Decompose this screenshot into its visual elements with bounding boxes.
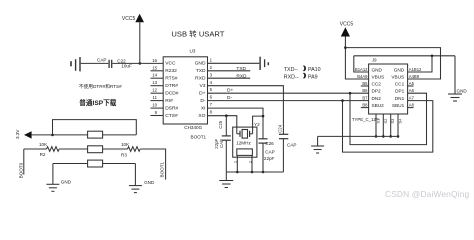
- svg-text:C24: C24: [278, 124, 283, 132]
- svg-text:S4: S4: [398, 118, 403, 124]
- svg-text:13: 13: [152, 80, 157, 85]
- svg-text:BOOT1: BOOT1: [160, 161, 165, 177]
- wire pin14 stub: [151, 77, 164, 79]
- svg-text:S1: S1: [376, 119, 381, 124]
- svg-text:C26: C26: [265, 141, 274, 146]
- wire A1B12 GND right: [408, 56, 432, 72]
- resistor R3: [128, 147, 141, 152]
- svg-text:9: 9: [155, 110, 158, 115]
- svg-text:A8: A8: [409, 103, 415, 108]
- svg-text:S2: S2: [383, 119, 388, 124]
- wire pin10 stub: [151, 107, 164, 109]
- svg-text:DP1: DP1: [395, 89, 405, 94]
- wire pin6 D- to connector B7: [208, 100, 369, 102]
- resistor (box) row A: [88, 131, 103, 138]
- svg-text:C25: C25: [218, 120, 223, 128]
- wire DP wrap (D+ to A6/DP1): [350, 93, 427, 144]
- svg-text:CH340G: CH340G: [184, 125, 202, 130]
- svg-text:14: 14: [152, 73, 157, 78]
- svg-text:22pF: 22pF: [264, 156, 275, 161]
- wire shell gnd line: [318, 135, 398, 137]
- capacitor C21 (electrolytic, left edge): [71, 57, 80, 71]
- svg-text:XO: XO: [198, 113, 205, 119]
- svg-text:U3: U3: [190, 48, 196, 53]
- svg-text:CC1: CC1: [395, 81, 405, 86]
- wire A5 stub: [408, 85, 414, 87]
- wire row B left: [24, 148, 47, 150]
- wire C22 to U3 pin16: [112, 62, 163, 64]
- capacitor C24: [279, 134, 288, 138]
- wire B1A12 GND left: [354, 56, 369, 72]
- wire shell pin S1: [375, 114, 377, 136]
- wire C25 to gnd bus: [225, 140, 227, 172]
- svg-text:10K: 10K: [39, 142, 48, 147]
- wire Y2 pin2 jog to XI: [253, 116, 263, 134]
- svg-text:DSR#: DSR#: [165, 105, 178, 111]
- wire XO down to C25: [225, 116, 227, 136]
- wire gnd bus (crystal area): [226, 171, 283, 173]
- svg-text:8: 8: [210, 110, 213, 115]
- wire B8 stub: [361, 107, 369, 109]
- node shell S2: [382, 135, 385, 138]
- resistor (box) row C: [88, 160, 103, 167]
- capacitor C22: [109, 60, 112, 68]
- node shell S1: [375, 135, 378, 138]
- svg-text:GND: GND: [394, 67, 405, 72]
- power VCC5 left: [135, 14, 144, 22]
- svg-text:B7: B7: [362, 96, 368, 101]
- node Y2 pin1 on bus: [236, 171, 239, 174]
- svg-text:V3: V3: [200, 83, 206, 89]
- svg-text:A7: A7: [409, 96, 415, 101]
- wire A8 stub: [408, 107, 414, 109]
- svg-text:VBUS: VBUS: [372, 74, 385, 79]
- wire pin8 XO: [208, 116, 237, 134]
- svg-text:VCC: VCC: [165, 61, 176, 67]
- svg-text:R232: R232: [165, 68, 177, 74]
- crystal Y2 glyph: [237, 130, 253, 139]
- node D+/B6 junction: [349, 92, 352, 95]
- wire pin2 TXD: [208, 70, 251, 72]
- wire pin15 stub: [151, 70, 164, 72]
- svg-text:VCC5: VCC5: [340, 21, 354, 27]
- wire DN wrap (D- to A7/DN1): [343, 101, 433, 153]
- svg-text:D+: D+: [227, 88, 233, 94]
- ground symbol crystal area: [219, 172, 233, 188]
- wire pin3 RXD: [208, 77, 251, 79]
- svg-text:16: 16: [152, 58, 157, 63]
- op-amp U3 chip body CH340G: [163, 57, 207, 124]
- wire C21 to C22: [81, 62, 109, 64]
- svg-text:RXD--: RXD--: [284, 75, 299, 81]
- svg-text:A1B12: A1B12: [409, 67, 422, 72]
- svg-text:2: 2: [249, 161, 253, 163]
- svg-text:A6: A6: [409, 88, 415, 93]
- svg-text:GND: GND: [372, 67, 383, 72]
- svg-text:5: 5: [210, 87, 213, 92]
- wire pin7 XI: [208, 108, 264, 116]
- svg-text:R3: R3: [121, 153, 127, 158]
- wire pin12 stub: [151, 92, 164, 94]
- svg-text:DN1: DN1: [395, 96, 405, 101]
- svg-text:10: 10: [152, 103, 157, 108]
- svg-text:GND: GND: [195, 61, 206, 67]
- wire row C right: [103, 163, 136, 165]
- svg-text:SBU2: SBU2: [372, 103, 385, 108]
- connector J9 body: [369, 64, 408, 114]
- wire C24 to gnd bus: [282, 139, 284, 172]
- capacitor C25: [222, 136, 231, 140]
- node XI/Y2 jog junction: [262, 115, 265, 118]
- wire VBUS top line: [345, 48, 440, 79]
- svg-text:BOOT0: BOOT0: [18, 162, 23, 178]
- svg-text:11: 11: [153, 95, 158, 100]
- svg-text:不使用DTR#和RTS#: 不使用DTR#和RTS#: [79, 83, 122, 90]
- power VCC5 right: [341, 27, 350, 36]
- svg-text:BOOT1: BOOT1: [191, 134, 207, 139]
- svg-text:B4A9: B4A9: [357, 74, 368, 79]
- node VCC5 right junction: [344, 46, 347, 49]
- wire C26 to gnd bus: [262, 143, 264, 172]
- svg-text:PA9: PA9: [308, 75, 318, 81]
- wire VCC5 right stem down to B4A9: [345, 37, 368, 80]
- svg-text:RXD: RXD: [236, 73, 247, 79]
- node row A loop junction: [51, 134, 54, 137]
- svg-text:XI: XI: [201, 105, 206, 111]
- svg-text:J9: J9: [372, 58, 377, 63]
- wire VCC5 left stem: [139, 22, 141, 63]
- svg-text:S3: S3: [390, 119, 395, 124]
- svg-text:TXD: TXD: [236, 66, 246, 72]
- wire pin9 stub: [151, 115, 164, 117]
- svg-text:3.3V: 3.3V: [15, 129, 20, 139]
- svg-text:R2: R2: [40, 152, 46, 157]
- wire loop over row A: [53, 120, 137, 135]
- svg-text:10K: 10K: [121, 142, 130, 147]
- svg-text:TXD--: TXD--: [284, 67, 298, 73]
- resistor R2: [47, 147, 60, 152]
- svg-text:DTR#: DTR#: [165, 83, 178, 89]
- wire row A right: [103, 134, 137, 136]
- node C26 on bus: [262, 171, 265, 174]
- svg-text:CAP: CAP: [287, 143, 296, 148]
- svg-text:USB 转 USART: USB 转 USART: [171, 29, 224, 39]
- wire pin13 stub: [151, 85, 164, 87]
- svg-text:7: 7: [210, 102, 213, 107]
- wire B5 stub: [361, 85, 369, 87]
- wire 3.3V row A: [32, 134, 88, 136]
- svg-text:CAP: CAP: [265, 149, 274, 154]
- svg-text:12MHz: 12MHz: [236, 141, 251, 146]
- wire box to R3: [103, 148, 128, 150]
- svg-text:VBUS: VBUS: [391, 74, 404, 79]
- svg-text:B6: B6: [362, 88, 368, 93]
- wire row C: [53, 163, 88, 165]
- svg-text:CTS#: CTS#: [165, 113, 178, 119]
- node VCC5/pin16 junction: [139, 62, 142, 65]
- svg-text:普通ISP下载: 普通ISP下载: [79, 98, 116, 107]
- svg-text:GND: GND: [457, 89, 468, 94]
- wire shell pin S4: [397, 114, 399, 136]
- wire Y2 pin2 to gnd bus: [251, 155, 253, 172]
- node Y2 pin2 on bus: [251, 171, 254, 174]
- node XO/C25 junction: [225, 114, 228, 117]
- wire shell pin S2: [382, 114, 384, 136]
- svg-text:15: 15: [152, 65, 157, 70]
- node D-/B7 junction: [341, 99, 344, 102]
- node shell S3: [389, 135, 392, 138]
- svg-text:SBU1: SBU1: [392, 103, 405, 108]
- svg-text:GND: GND: [61, 179, 72, 184]
- wire R2 to box: [59, 148, 87, 150]
- power 3.3V arrow: [24, 131, 32, 138]
- resistor (box) row B: [88, 146, 103, 153]
- ground symbol bottom-left 1: [46, 164, 59, 192]
- svg-text:TXD: TXD: [196, 68, 206, 74]
- svg-text:CAP: CAP: [219, 139, 224, 148]
- svg-text:A4B9: A4B9: [409, 74, 420, 79]
- svg-text:12: 12: [152, 88, 157, 93]
- svg-text:2: 2: [210, 65, 213, 70]
- svg-text:6: 6: [210, 95, 213, 100]
- wire shell pin S3: [390, 114, 392, 136]
- wire pin1 GND to cap: [208, 62, 260, 64]
- ground symbol shell: [311, 136, 324, 153]
- crystal Y2 outline box: [233, 127, 257, 157]
- svg-text:10uF: 10uF: [121, 64, 132, 69]
- ground symbol connector right: [448, 56, 462, 101]
- svg-text:CC2: CC2: [372, 81, 382, 86]
- wire R3 to BOOT1 stub: [140, 149, 165, 180]
- svg-text:B8: B8: [362, 103, 368, 108]
- node A1B12 GND junction: [431, 55, 434, 58]
- svg-text:D-: D-: [200, 98, 206, 104]
- svg-text:1: 1: [233, 161, 237, 163]
- capacitor C26: [259, 139, 268, 143]
- svg-text:VCC5: VCC5: [122, 16, 136, 22]
- wire pin11 stub: [151, 100, 164, 102]
- svg-text:1: 1: [210, 57, 213, 62]
- wire pin5 D+ to connector B6: [208, 92, 369, 94]
- svg-text:C22: C22: [117, 58, 126, 63]
- svg-text:RI#: RI#: [165, 98, 173, 104]
- svg-text:GND: GND: [144, 180, 155, 185]
- ground symbol bottom-left 2: [129, 164, 142, 193]
- svg-text:B5: B5: [362, 81, 368, 86]
- crystal Y2 body rect: [237, 149, 253, 156]
- svg-text:RTS#: RTS#: [165, 76, 178, 82]
- svg-text:B1A12: B1A12: [355, 67, 368, 72]
- svg-text:DCD#: DCD#: [165, 91, 179, 97]
- svg-text:CAP: CAP: [97, 58, 106, 63]
- svg-text:D+: D+: [199, 91, 206, 97]
- node shell S4: [397, 135, 400, 138]
- capacitor at pin1: [260, 57, 268, 70]
- wire BOOT0 stub: [23, 149, 25, 175]
- svg-text:RXD: RXD: [195, 76, 206, 82]
- wire GND top line: [354, 55, 455, 57]
- svg-text:DP2: DP2: [372, 89, 382, 94]
- svg-text:Y2: Y2: [254, 122, 260, 127]
- svg-text:CSDN @DaiWenQing: CSDN @DaiWenQing: [385, 189, 469, 199]
- svg-text:D-: D-: [227, 95, 232, 101]
- svg-text:A5: A5: [409, 81, 415, 86]
- svg-text:PA10: PA10: [308, 67, 321, 73]
- wire XI down to C26: [262, 116, 264, 139]
- svg-text:4: 4: [210, 80, 213, 85]
- wire Y2 pin1 to gnd bus: [236, 155, 238, 172]
- svg-text:3: 3: [210, 72, 213, 77]
- svg-text:DN2: DN2: [372, 96, 382, 101]
- wire pin4 V3 to C24: [208, 86, 284, 135]
